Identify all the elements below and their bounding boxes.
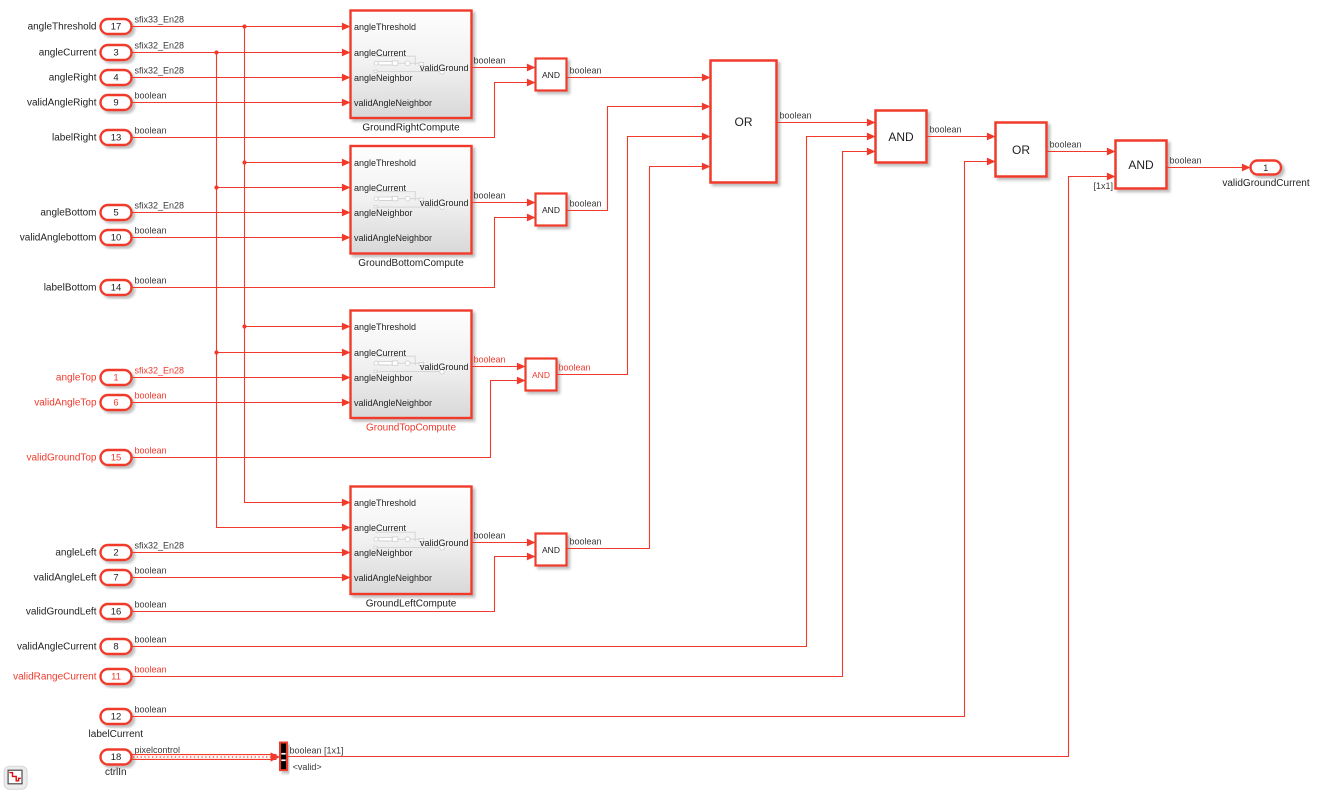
svg-text:AND: AND xyxy=(542,205,560,215)
svg-text:sfix33_En28: sfix33_En28 xyxy=(135,14,185,24)
svg-text:validAngleLeft: validAngleLeft xyxy=(34,573,97,584)
wire inport1 angleTop to GroundTopCompute in3 xyxy=(132,377,351,379)
inport 7 validAngleLeft xyxy=(34,570,132,585)
svg-text:validGround: validGround xyxy=(420,63,469,73)
svg-text:16: 16 xyxy=(111,607,122,618)
wire AND3 out to outport validGroundCurrent xyxy=(1167,167,1251,169)
wire inport3 angleCurrent to GroundRightCompute in2 xyxy=(132,52,351,54)
branch angleCurrent trunk to GroundTopCompute in2 xyxy=(217,352,351,354)
logical operator AND (3-input) xyxy=(876,111,927,163)
svg-text:validAnglebottom: validAnglebottom xyxy=(20,233,97,244)
svg-text:boolean: boolean xyxy=(135,275,167,285)
inport 9 validAngleRight xyxy=(27,95,132,110)
svg-text:boolean: boolean xyxy=(570,198,602,208)
svg-text:boolean: boolean xyxy=(135,125,167,135)
svg-text:angleNeighbor: angleNeighbor xyxy=(354,548,413,558)
svg-text:boolean: boolean xyxy=(1050,139,1082,149)
svg-text:sfix32_En28: sfix32_En28 xyxy=(135,40,185,50)
branch angleCurrent trunk to GroundBottomCompute in2 xyxy=(217,187,351,189)
svg-text:angleBottom: angleBottom xyxy=(40,208,96,219)
svg-text:angleCurrent: angleCurrent xyxy=(354,48,407,58)
svg-text:GroundLeftCompute: GroundLeftCompute xyxy=(366,598,457,609)
svg-text:boolean: boolean xyxy=(135,90,167,100)
wire AND-R out to OR1 in1 xyxy=(567,77,711,79)
input port arrows of GroundTopCompute xyxy=(342,323,351,407)
wire GroundLeftCompute validGround to AND-L in1 xyxy=(472,542,536,544)
wire validAngleCurrent inport8 to AND2 in2 xyxy=(132,137,876,647)
svg-text:validRangeCurrent: validRangeCurrent xyxy=(13,672,97,683)
wire validGroundTop inport15 to AND-T in2 xyxy=(132,381,526,458)
svg-text:boolean: boolean xyxy=(135,704,167,714)
svg-text:boolean: boolean xyxy=(135,225,167,235)
svg-text:boolean: boolean xyxy=(780,110,812,120)
svg-text:validAngleRight: validAngleRight xyxy=(27,98,97,109)
svg-text:boolean [1x1]: boolean [1x1] xyxy=(290,746,344,756)
inport 15 validGroundTop xyxy=(26,450,131,465)
svg-text:angleLeft: angleLeft xyxy=(55,548,96,559)
svg-text:validAngleCurrent: validAngleCurrent xyxy=(17,642,97,653)
wire OR2 out to AND3 in1 xyxy=(1047,151,1116,153)
subsystem block GroundBottomCompute xyxy=(351,146,472,254)
svg-text:angleThreshold: angleThreshold xyxy=(354,22,416,32)
svg-text:AND: AND xyxy=(542,545,560,555)
inport 10 validAnglebottom xyxy=(20,230,132,245)
wire GroundBottomCompute validGround to AND-B in1 xyxy=(472,202,536,204)
svg-text:sfix32_En28: sfix32_En28 xyxy=(135,365,185,375)
svg-text:5: 5 xyxy=(113,208,118,219)
branch angleThreshold trunk to GroundBottomCompute in1 xyxy=(245,162,351,164)
svg-text:boolean: boolean xyxy=(570,65,602,75)
svg-text:1: 1 xyxy=(1263,163,1268,173)
svg-text:angleNeighbor: angleNeighbor xyxy=(354,208,413,218)
wire inport9 validAngleRight to GroundRightCompute in4 xyxy=(132,102,351,104)
wire labelBottom inport14 to AND-B in2 xyxy=(132,218,536,288)
wire inport2 angleLeft to GroundLeftCompute in3 xyxy=(132,552,351,554)
svg-text:8: 8 xyxy=(113,642,118,653)
svg-text:validGround: validGround xyxy=(420,362,469,372)
subsystem block GroundRightCompute xyxy=(351,11,472,119)
wire AND-L out to OR1 in4 xyxy=(567,167,711,549)
svg-text:validGroundTop: validGroundTop xyxy=(26,453,96,464)
svg-text:angleNeighbor: angleNeighbor xyxy=(354,373,413,383)
svg-text:<valid>: <valid> xyxy=(293,762,322,772)
svg-text:boolean: boolean xyxy=(135,390,167,400)
svg-text:11: 11 xyxy=(111,672,121,683)
svg-text:10: 10 xyxy=(111,233,122,244)
svg-text:sfix32_En28: sfix32_En28 xyxy=(135,200,185,210)
svg-text:boolean: boolean xyxy=(135,664,167,674)
junction dots on angleCurrent trunk xyxy=(214,50,218,354)
inport 12 xyxy=(101,709,132,724)
svg-text:AND: AND xyxy=(532,370,550,380)
logical operator AND (output) xyxy=(1116,141,1167,189)
inport 3 angleCurrent xyxy=(39,45,132,60)
inport 13 labelRight xyxy=(52,130,131,145)
svg-text:pixelcontrol: pixelcontrol xyxy=(135,745,181,755)
svg-text:validAngleNeighbor: validAngleNeighbor xyxy=(354,573,432,583)
svg-text:14: 14 xyxy=(111,283,122,294)
wire labelRight inport13 to AND-R in2 xyxy=(132,83,536,138)
svg-text:validAngleTop: validAngleTop xyxy=(34,398,97,409)
wire inport5 angleBottom to GroundBottomCompute in3 xyxy=(132,212,351,214)
svg-text:7: 7 xyxy=(113,573,118,584)
wire labelCurrent inport12 to OR2 in2 xyxy=(132,162,996,717)
svg-text:18: 18 xyxy=(111,752,122,763)
svg-text:validGround: validGround xyxy=(420,198,469,208)
wire GroundTopCompute validGround to AND-T in1 xyxy=(472,366,526,368)
svg-text:validGroundCurrent: validGroundCurrent xyxy=(1222,178,1309,189)
subsystem block GroundLeftCompute xyxy=(351,487,472,595)
branch angleThreshold trunk to GroundTopCompute in1 xyxy=(245,326,351,328)
svg-text:15: 15 xyxy=(111,453,122,464)
svg-text:3: 3 xyxy=(113,48,118,59)
svg-text:labelCurrent: labelCurrent xyxy=(89,729,144,740)
wire inport7 validAngleLeft to GroundLeftCompute in4 xyxy=(132,577,351,579)
logical operator AND (bottom group) xyxy=(536,194,567,226)
inport 5 angleBottom xyxy=(40,205,131,220)
svg-text:angleNeighbor: angleNeighbor xyxy=(354,73,413,83)
logical operator OR (2-input) xyxy=(996,123,1047,177)
svg-text:AND: AND xyxy=(542,70,560,80)
svg-text:angleCurrent: angleCurrent xyxy=(354,348,407,358)
svg-text:boolean: boolean xyxy=(135,599,167,609)
inport 2 angleLeft xyxy=(55,545,131,560)
inport 11 validRangeCurrent xyxy=(13,669,131,684)
svg-text:17: 17 xyxy=(111,22,122,33)
inport 1 angleTop xyxy=(56,370,132,385)
inport 4 angleRight xyxy=(49,70,132,85)
svg-text:GroundRightCompute: GroundRightCompute xyxy=(362,122,460,133)
svg-text:boolean: boolean xyxy=(474,354,506,364)
svg-text:GroundBottomCompute: GroundBottomCompute xyxy=(358,258,464,269)
inport 18 xyxy=(101,750,132,765)
svg-text:angleRight: angleRight xyxy=(49,73,97,84)
wire GroundRightCompute validGround to AND-R in1 xyxy=(472,67,536,69)
wire bus selector valid signal to AND3 in2 xyxy=(288,177,1116,757)
svg-text:9: 9 xyxy=(113,98,118,109)
svg-text:sfix32_En28: sfix32_En28 xyxy=(135,540,185,550)
svg-text:validAngleNeighbor: validAngleNeighbor xyxy=(354,98,432,108)
svg-text:OR: OR xyxy=(735,115,753,129)
svg-text:ctrlIn: ctrlIn xyxy=(105,767,127,778)
wire inport10 validAnglebottom to GroundBottomCompute in4 xyxy=(132,237,351,239)
svg-text:boolean: boolean xyxy=(474,190,506,200)
svg-text:AND: AND xyxy=(1128,158,1154,172)
svg-text:boolean: boolean xyxy=(135,634,167,644)
svg-text:boolean: boolean xyxy=(474,55,506,65)
wire trunk angleCurrent down to GroundLeftCompute in2 xyxy=(217,53,351,528)
input port arrows of GroundRightCompute xyxy=(342,23,351,107)
svg-text:labelBottom: labelBottom xyxy=(44,283,97,294)
svg-text:angleThreshold: angleThreshold xyxy=(28,22,97,33)
inport 17 angleThreshold xyxy=(28,19,132,34)
svg-text:angleThreshold: angleThreshold xyxy=(354,322,416,332)
svg-text:12: 12 xyxy=(111,712,122,723)
svg-text:labelRight: labelRight xyxy=(52,133,97,144)
svg-text:angleThreshold: angleThreshold xyxy=(354,498,416,508)
wire AND2 out to OR2 in1 xyxy=(927,136,996,138)
svg-text:boolean: boolean xyxy=(135,445,167,455)
svg-text:boolean: boolean xyxy=(930,124,962,134)
svg-text:validAngleNeighbor: validAngleNeighbor xyxy=(354,233,432,243)
svg-text:angleCurrent: angleCurrent xyxy=(354,183,407,193)
svg-text:OR: OR xyxy=(1012,143,1030,157)
svg-text:validGroundLeft: validGroundLeft xyxy=(26,607,97,618)
junction dots on angleThreshold trunk xyxy=(242,24,246,328)
inport 8 validAngleCurrent xyxy=(17,639,132,654)
input port arrows of GroundBottomCompute xyxy=(342,159,351,242)
svg-text:AND: AND xyxy=(888,130,914,144)
wire AND-T out to OR1 in3 xyxy=(557,137,711,375)
wire inport17 angleThreshold to GroundRightCompute in1 xyxy=(132,26,351,28)
inport 6 validAngleTop xyxy=(34,395,131,410)
svg-text:validGround: validGround xyxy=(420,538,469,548)
subsystem block GroundTopCompute xyxy=(351,311,472,419)
svg-text:4: 4 xyxy=(113,73,118,84)
svg-text:boolean: boolean xyxy=(135,565,167,575)
svg-text:boolean: boolean xyxy=(570,536,602,546)
svg-text:2: 2 xyxy=(113,548,118,559)
wire validRangeCurrent inport11 to AND2 in3 xyxy=(132,152,876,677)
control bus wire inport18 ctrlIn to bus selector xyxy=(132,752,281,761)
input port arrows of GroundLeftCompute xyxy=(342,499,351,582)
logical operator AND (right group) xyxy=(536,59,567,91)
logical operator AND (top group, red) xyxy=(526,359,557,391)
svg-text:angleTop: angleTop xyxy=(56,373,97,384)
outport 1 validGroundCurrent xyxy=(1251,161,1282,175)
svg-text:angleCurrent: angleCurrent xyxy=(39,48,97,59)
bus selector block xyxy=(280,743,287,771)
wire inport4 angleRight to GroundRightCompute in3 xyxy=(132,77,351,79)
svg-text:angleCurrent: angleCurrent xyxy=(354,523,407,533)
legend icon bottom-left xyxy=(4,766,27,789)
svg-text:boolean: boolean xyxy=(559,362,591,372)
logical operator OR (4-input) xyxy=(711,61,777,183)
wire AND-B out to OR1 in2 xyxy=(567,107,711,211)
wire validGroundLeft inport16 to AND-L in2 xyxy=(132,557,536,612)
wire trunk angleThreshold down to GroundLeftCompute in1 xyxy=(245,27,351,503)
svg-text:13: 13 xyxy=(111,133,122,144)
wire OR1 out to AND2 in1 xyxy=(777,122,876,124)
inport 14 labelBottom xyxy=(44,280,132,295)
svg-text:GroundTopCompute: GroundTopCompute xyxy=(366,422,456,433)
svg-text:sfix32_En28: sfix32_En28 xyxy=(135,65,185,75)
svg-text:boolean: boolean xyxy=(1170,155,1202,165)
svg-text:validAngleNeighbor: validAngleNeighbor xyxy=(354,398,432,408)
svg-text:[1x1]: [1x1] xyxy=(1093,181,1113,191)
logical operator AND (left group) xyxy=(536,534,567,566)
inport 16 validGroundLeft xyxy=(26,604,132,619)
svg-text:angleThreshold: angleThreshold xyxy=(354,158,416,168)
svg-text:1: 1 xyxy=(113,373,118,384)
wire inport6 validAngleTop to GroundTopCompute in4 xyxy=(132,402,351,404)
svg-text:boolean: boolean xyxy=(474,530,506,540)
svg-text:6: 6 xyxy=(113,398,118,409)
